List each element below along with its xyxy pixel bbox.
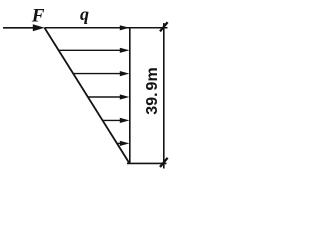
svg-text:F: F xyxy=(31,5,45,26)
svg-text:q: q xyxy=(80,4,89,24)
dimension tick top xyxy=(160,22,168,31)
dimension line xyxy=(163,23,165,169)
top edge line (q arrow line + dimension extension) xyxy=(45,27,168,29)
bottom extension line xyxy=(127,162,167,164)
dimension tick bottom xyxy=(160,158,168,167)
force arrow F head xyxy=(33,24,45,31)
load arrow 1 xyxy=(59,48,130,53)
load arrow 5 xyxy=(117,141,129,146)
load arrow 2 xyxy=(73,71,129,76)
load arrow 4 xyxy=(103,118,130,123)
hypotenuse (load envelope slant) xyxy=(44,28,129,164)
load arrow 3 xyxy=(88,94,129,99)
load line (vertical member) xyxy=(129,28,131,164)
top load arrow head xyxy=(120,25,130,30)
force arrow F line xyxy=(3,27,34,29)
svg-text:39.9m: 39.9m xyxy=(144,67,161,114)
